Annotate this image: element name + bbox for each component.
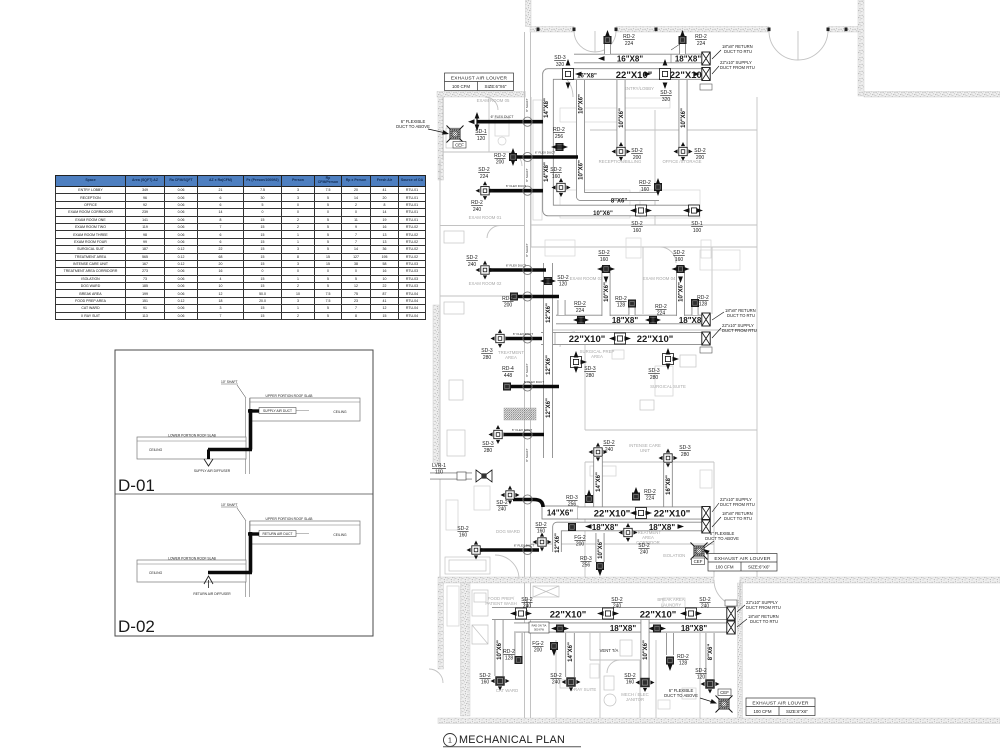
svg-text:8" SHAFT: 8" SHAFT: [525, 168, 529, 182]
svg-text:18"X8": 18"X8": [610, 624, 636, 633]
svg-text:CEILING: CEILING: [333, 410, 347, 414]
svg-text:18"X8": 18"X8": [592, 523, 618, 532]
svg-text:SIZE:6"X6": SIZE:6"X6": [748, 565, 770, 570]
svg-text:CEILING: CEILING: [149, 571, 163, 575]
duct run 10x6 vertical V4: [679, 80, 688, 150]
svg-text:CEF: CEF: [720, 690, 729, 695]
label SD-3 320 right: [660, 90, 672, 103]
svg-text:10"X6": 10"X6": [593, 211, 613, 217]
wall: bottom band: [438, 718, 1000, 724]
svg-text:AREA: AREA: [505, 355, 517, 360]
svg-text:18"X8": 18"X8": [675, 55, 701, 64]
svg-text:100 CFM: 100 CFM: [715, 565, 733, 570]
svg-text:MECHANICAL PLAN: MECHANICAL PLAN: [459, 734, 565, 746]
duct run 16x8/18x8 top (section1 return): [574, 54, 705, 64]
svg-text:256: 256: [582, 563, 591, 569]
diffuser RD-2 128 mid: [666, 633, 674, 655]
svg-text:VENT T/A: VENT T/A: [600, 648, 619, 653]
svg-text:280: 280: [484, 448, 493, 454]
arrows on section1 ducts: [575, 72, 582, 77]
CEF fan mid-right: [691, 543, 708, 560]
svg-text:128: 128: [617, 303, 626, 309]
svg-text:224: 224: [625, 41, 634, 47]
svg-text:EXAM ROOM 01: EXAM ROOM 01: [469, 215, 502, 220]
exhaust air louver box bottom: [746, 698, 815, 716]
diffuser SD-2 200 right: [674, 142, 693, 161]
svg-text:280: 280: [483, 355, 492, 361]
svg-text:DUCT FROM RTU: DUCT FROM RTU: [720, 65, 755, 70]
svg-text:RETURN AIR DIFFUSER: RETURN AIR DIFFUSER: [193, 592, 231, 596]
svg-text:200: 200: [633, 155, 642, 161]
svg-text:6" FLEX DUCT: 6" FLEX DUCT: [514, 544, 534, 548]
svg-text:160: 160: [481, 680, 490, 686]
wall: left band above exam room 05: [437, 92, 526, 98]
svg-text:10"X6": 10"X6": [604, 282, 610, 302]
diffuser RD-3 256 below: [596, 562, 603, 569]
riser X section2: [702, 313, 710, 326]
flex duct SD-2 160 pair dog ward: [480, 548, 539, 552]
door: exam room 05 door: [485, 97, 498, 110]
svg-text:CEILING: CEILING: [149, 448, 163, 452]
svg-text:8"X6": 8"X6": [611, 199, 628, 205]
diffusers/labels on 18x8 section2: [577, 316, 584, 323]
svg-text:6" FLEX DUCT: 6" FLEX DUCT: [506, 264, 526, 268]
svg-text:8" SHAFT: 8" SHAFT: [525, 363, 529, 377]
svg-text:8"X6": 8"X6": [708, 644, 714, 661]
svg-text:DOG WARD: DOG WARD: [496, 529, 520, 534]
svg-text:6" FLEX DUCT: 6" FLEX DUCT: [513, 332, 533, 336]
riser X section1 return: [702, 52, 710, 65]
svg-text:SUPPLY AIR DUCT: SUPPLY AIR DUCT: [263, 409, 292, 413]
svg-text:DUCT TO ABOVE: DUCT TO ABOVE: [664, 693, 698, 698]
svg-text:CEF: CEF: [455, 143, 464, 148]
door: corridor door bottom: [714, 580, 740, 606]
svg-text:8" SHAFT: 8" SHAFT: [525, 598, 529, 612]
svg-text:14"X6": 14"X6": [568, 642, 574, 662]
duct run 10x6 vertical V3: [617, 80, 626, 150]
svg-text:200: 200: [576, 542, 585, 548]
svg-text:10" SHAFT: 10" SHAFT: [221, 503, 238, 507]
svg-text:256: 256: [555, 134, 564, 140]
svg-text:12"X6": 12"X6": [546, 303, 552, 323]
svg-text:224: 224: [646, 496, 655, 502]
svg-text:ENTRY/LOBBY: ENTRY/LOBBY: [624, 86, 654, 91]
junction boxes section4: [516, 608, 527, 619]
svg-text:160: 160: [537, 529, 546, 535]
exhaust air louver box top-left: [445, 73, 514, 91]
svg-text:14"X6": 14"X6": [547, 509, 573, 518]
diffuser SD-2 160 on 10x6 bottom run: [636, 205, 647, 216]
svg-text:CEF: CEF: [694, 559, 703, 564]
wall: top-right vertical exterior: [858, 0, 864, 96]
svg-text:240: 240: [640, 550, 649, 556]
wall: bottom-left edge vertical: [438, 583, 444, 669]
svg-text:12"X6": 12"X6": [546, 398, 552, 418]
svg-text:16"X8": 16"X8": [617, 55, 643, 64]
svg-text:D-02: D-02: [118, 617, 155, 636]
wall: central shaft double lines: [525, 32, 531, 718]
svg-text:240: 240: [613, 604, 622, 610]
duct run 22x10 section2: [541, 332, 705, 345]
svg-text:160: 160: [600, 257, 609, 263]
svg-text:120: 120: [477, 136, 486, 142]
rtu leader labels section1: [720, 44, 755, 70]
detail box frame: [115, 350, 373, 636]
svg-text:22"X10": 22"X10": [594, 509, 630, 520]
svg-text:10"X6": 10"X6": [679, 282, 685, 302]
svg-text:12"X6": 12"X6": [546, 355, 552, 375]
svg-text:SURGICAL SUITE: SURGICAL SUITE: [650, 384, 686, 389]
svg-text:12"X6": 12"X6": [555, 533, 561, 553]
svg-text:UPPER PORTION ROOF SLAB: UPPER PORTION ROOF SLAB: [265, 517, 313, 521]
flex duct SD-2 240 to 14x6 box: [513, 500, 543, 508]
svg-text:EXAM ROOM 04: EXAM ROOM 04: [643, 276, 676, 281]
svg-text:14"X6": 14"X6": [596, 472, 602, 492]
duct stubs to RD-2 224 top: [604, 44, 611, 54]
svg-text:SIZE:6"X6": SIZE:6"X6": [786, 709, 808, 714]
svg-text:DUCT FROM RTU: DUCT FROM RTU: [722, 328, 757, 333]
duct 10x6 mid: [641, 620, 650, 678]
svg-text:160: 160: [552, 174, 561, 180]
svg-text:128: 128: [699, 302, 708, 308]
detail D-01: [137, 380, 360, 474]
duct run 18x8 section3: [557, 527, 705, 553]
rtu labels section4: [746, 600, 781, 624]
duct connector 10x6 short: [558, 300, 566, 315]
svg-text:224: 224: [480, 174, 489, 180]
tag box below risers: [700, 84, 712, 90]
wall: left vertical mid fragment: [433, 305, 439, 463]
title: mechanical plan: [444, 734, 457, 747]
svg-text:160: 160: [633, 228, 642, 234]
svg-text:18"X8": 18"X8": [612, 316, 638, 325]
svg-text:RETURN AIR DUCT: RETURN AIR DUCT: [262, 532, 292, 536]
fixture: hatched equipment: [504, 408, 536, 420]
risers section3: [702, 507, 710, 520]
SD-2 160 verticals below section2: [602, 266, 611, 316]
svg-text:500 6"W: 500 6"W: [534, 627, 544, 631]
svg-text:EXAM ROOM 05: EXAM ROOM 05: [477, 98, 510, 103]
svg-text:240: 240: [468, 262, 477, 268]
svg-text:16"X8": 16"X8": [666, 475, 672, 495]
duct run 12x6 vertical V5: [543, 263, 553, 458]
svg-text:160: 160: [459, 533, 468, 539]
svg-text:100 CFM: 100 CFM: [452, 84, 470, 89]
fixtures: misc room furniture: [444, 128, 696, 706]
duct run 22x10 section1 supply with elbow to 14x8 and 10x6 bottom: [548, 74, 705, 211]
svg-text:EXHAUST AIR LOUVER: EXHAUST AIR LOUVER: [714, 556, 771, 562]
svg-text:6" FLEX DUCT: 6" FLEX DUCT: [512, 428, 532, 432]
flex duct SD-1 120 topmost: [477, 120, 543, 124]
svg-text:22"X10": 22"X10": [640, 609, 676, 620]
svg-text:8" SHAFT: 8" SHAFT: [525, 98, 529, 112]
leader 6 flexible duct top-left: [396, 119, 430, 129]
svg-text:240: 240: [701, 604, 710, 610]
svg-text:1: 1: [448, 738, 452, 745]
riser X section1 supply: [702, 68, 710, 81]
junction boxes section1: [563, 69, 574, 80]
flex duct RD-2 240 w SD-2 224: [489, 189, 543, 193]
svg-text:10"X6": 10"X6": [619, 108, 625, 128]
svg-text:110: 110: [435, 470, 443, 476]
svg-text:14"X8": 14"X8": [544, 162, 550, 182]
svg-text:LOWER PORTION ROOF SLAB: LOWER PORTION ROOF SLAB: [168, 434, 217, 438]
door: misc arcs: [545, 69, 573, 97]
svg-text:200: 200: [496, 160, 505, 166]
svg-text:160: 160: [641, 187, 650, 193]
diffuser RD-2 160 end of 8x6: [654, 183, 661, 190]
diffuser RD-2 256: [556, 143, 563, 150]
diffuser SD-1 100 end: [689, 205, 700, 216]
diffuser SD-2 200 left: [612, 142, 631, 161]
wall: left vertical below band: [438, 97, 444, 180]
svg-text:6" FLEX DUCT: 6" FLEX DUCT: [491, 115, 514, 119]
FG-2 200 bottom: [550, 642, 557, 649]
svg-text:LAUNDRY: LAUNDRY: [661, 603, 682, 608]
duct run 22x10 section3: [578, 507, 705, 520]
svg-text:CEILING: CEILING: [333, 533, 347, 537]
svg-text:200: 200: [696, 155, 705, 161]
diffuser RD-2 224 top left: [604, 36, 611, 43]
wall: bottom-left vertical hatched: [461, 583, 471, 716]
svg-text:22"X10": 22"X10": [670, 70, 706, 81]
svg-text:160: 160: [675, 257, 684, 263]
svg-text:D-01: D-01: [118, 476, 155, 495]
diffuser SD-2 240 below H8: [619, 523, 638, 542]
svg-text:120: 120: [559, 282, 568, 288]
svg-text:128: 128: [679, 661, 688, 667]
svg-text:22"X10": 22"X10": [637, 334, 673, 345]
duct 16x8 vertical intense care: [663, 463, 673, 507]
svg-text:SIZE:6"X6": SIZE:6"X6": [485, 84, 507, 89]
svg-text:200: 200: [504, 303, 513, 309]
duct run 10x6 vertical V2 + 8x6 horizontal: [581, 80, 660, 197]
fixtures: extra: [446, 100, 712, 709]
svg-text:DUCT TO ABOVE: DUCT TO ABOVE: [705, 536, 739, 541]
CEF fan top-left: [447, 126, 464, 143]
duct run 18x8 section4: [514, 623, 731, 633]
detail D-02: [137, 503, 360, 597]
svg-text:10"X6": 10"X6": [579, 94, 585, 114]
svg-text:200: 200: [534, 648, 543, 654]
diffuser RD-3 256 above H7: [585, 495, 592, 502]
svg-text:128: 128: [505, 656, 514, 662]
junction box + arrows section2 22x10: [615, 333, 626, 344]
flex duct SD-3 280 treatment2: [504, 433, 544, 437]
svg-text:100 CFM: 100 CFM: [753, 709, 771, 714]
flex duct RD-4 448: [509, 385, 559, 389]
svg-text:AREA: AREA: [591, 354, 603, 359]
svg-text:8" SHAFT: 8" SHAFT: [525, 243, 529, 257]
SD-2 240 labels above section4: [521, 597, 533, 610]
svg-text:10"X6": 10"X6": [643, 640, 649, 660]
duct stub RD-2 128 left: [515, 633, 523, 656]
duct run 18x8 section2: [556, 315, 705, 325]
svg-text:X-RAY SUITE: X-RAY SUITE: [570, 687, 597, 692]
duct 14x6 to x-ray: [565, 633, 575, 677]
diffuser SD-3 280 right: [663, 354, 674, 365]
svg-text:320: 320: [556, 62, 565, 68]
svg-text:DUCT TO RTU: DUCT TO RTU: [724, 49, 752, 54]
svg-text:LOWER PORTION ROOF SLAB: LOWER PORTION ROOF SLAB: [168, 557, 217, 561]
svg-text:ISOLATION: ISOLATION: [663, 553, 686, 558]
svg-text:DUCT FROM RTU: DUCT FROM RTU: [720, 502, 755, 507]
wall: bottom-right vertical: [738, 583, 743, 720]
diffuser SD-2 120 on shaft: [544, 277, 551, 284]
svg-text:14"X8": 14"X8": [544, 98, 550, 118]
door: top double door 2: [769, 31, 828, 60]
svg-text:320: 320: [662, 97, 671, 103]
svg-text:PATIENT WASH: PATIENT WASH: [485, 601, 516, 606]
svg-text:EXHAUST AIR LOUVER: EXHAUST AIR LOUVER: [752, 700, 809, 706]
diffuser RD-2 224 top right: [679, 36, 686, 43]
rtu labels section2: [722, 308, 757, 333]
rtu labels section3: [720, 497, 755, 521]
svg-text:8" SHAFT: 8" SHAFT: [525, 448, 529, 462]
wall: extra room partitions: [443, 97, 640, 718]
LVR-1 louver duct: [430, 473, 472, 480]
svg-text:RAD ON T/A: RAD ON T/A: [532, 624, 547, 628]
svg-text:6" FLEX DUCT: 6" FLEX DUCT: [506, 184, 526, 188]
wall: interior partitions: [440, 97, 757, 718]
CEF fan bottom: [716, 696, 733, 713]
svg-text:10"X6": 10"X6": [579, 160, 585, 180]
diffuser SD-2 160 on 8x6: [552, 178, 571, 197]
svg-text:6" FLEX DUCT: 6" FLEX DUCT: [535, 151, 555, 155]
svg-text:SUPPLY AIR DIFFUSER: SUPPLY AIR DIFFUSER: [194, 469, 231, 473]
svg-text:DUCT TO RTU: DUCT TO RTU: [724, 516, 752, 521]
wall: plan top exterior band segments: [530, 27, 574, 33]
duct 8x6 right: [706, 633, 715, 679]
svg-text:EXHAUST AIR LOUVER: EXHAUST AIR LOUVER: [451, 75, 508, 81]
svg-text:224: 224: [657, 311, 666, 317]
wall: corridor band mid: [438, 577, 714, 583]
svg-text:22"X10": 22"X10": [569, 334, 605, 345]
wall door ticks: [537, 28, 848, 32]
svg-text:224: 224: [576, 308, 585, 314]
duct 14x6 vertical intense care: [593, 457, 603, 507]
svg-text:UNIT: UNIT: [640, 448, 650, 453]
svg-text:280: 280: [650, 375, 659, 381]
svg-text:10"X6": 10"X6": [681, 108, 687, 128]
flex duct SD-2 240 exam02: [486, 268, 546, 272]
svg-text:10"X6": 10"X6": [497, 640, 503, 660]
RAD box on 18x8: [529, 622, 549, 633]
svg-text:22"X10": 22"X10": [654, 509, 690, 520]
wall: top-left vertical exterior: [526, 0, 532, 27]
svg-text:18"X8": 18"X8": [649, 523, 675, 532]
svg-text:10"X6": 10"X6": [598, 539, 604, 559]
diffuser RD-2 224 above H7: [632, 493, 639, 500]
exhaust air louver box mid-right: [708, 554, 777, 572]
svg-text:160: 160: [626, 680, 635, 686]
wall: right horizontal exterior: [864, 92, 1000, 98]
flex duct RD-2 200: [513, 155, 578, 159]
svg-text:120: 120: [697, 675, 706, 681]
svg-text:224: 224: [697, 41, 706, 47]
flex duct RD-2 200 low: [516, 295, 559, 299]
svg-text:BREAK AREA: BREAK AREA: [657, 597, 684, 602]
svg-text:240: 240: [605, 447, 614, 453]
svg-text:240: 240: [552, 680, 561, 686]
room labels: [469, 86, 702, 702]
data table: [55, 175, 425, 320]
svg-text:240: 240: [473, 207, 482, 213]
svg-text:JANITOR: JANITOR: [626, 697, 644, 702]
duct 10x6 to cat ward: [495, 620, 504, 676]
label box 14x6 left of H7: [542, 506, 578, 519]
risers section4: [727, 607, 735, 620]
label SD-3 320 left: [554, 55, 566, 68]
svg-text:448: 448: [504, 373, 513, 379]
svg-text:EXAM ROOM 03: EXAM ROOM 03: [570, 276, 603, 281]
diffuser SD-3 280 below 22x10: [571, 357, 582, 368]
svg-text:DUCT TO ABOVE: DUCT TO ABOVE: [396, 124, 430, 129]
svg-text:6" FLEX DUCT: 6" FLEX DUCT: [524, 380, 544, 384]
svg-text:22"X10": 22"X10": [550, 609, 586, 620]
flex duct SD-3 280 treatment1: [506, 337, 542, 341]
fixtures: reception area: [545, 98, 740, 270]
svg-text:UPPER PORTION ROOF SLAB: UPPER PORTION ROOF SLAB: [265, 394, 313, 398]
duct run 22x10 section4: [492, 607, 731, 620]
svg-text:DUCT FROM RTU: DUCT FROM RTU: [746, 605, 781, 610]
svg-text:280: 280: [681, 452, 690, 458]
svg-text:100: 100: [693, 228, 702, 234]
svg-text:240: 240: [498, 507, 507, 513]
svg-text:280: 280: [586, 373, 595, 379]
svg-text:18"X8": 18"X8": [681, 624, 707, 633]
door: top double door 1: [429, 31, 828, 683]
svg-text:DUCT TO RTU: DUCT TO RTU: [750, 619, 778, 624]
svg-text:10" SHAFT: 10" SHAFT: [221, 380, 238, 384]
svg-text:DUCT TO RTU: DUCT TO RTU: [727, 313, 755, 318]
svg-text:EXAM ROOM 02: EXAM ROOM 02: [469, 281, 502, 286]
FG-2 200 symbol: [568, 523, 575, 530]
